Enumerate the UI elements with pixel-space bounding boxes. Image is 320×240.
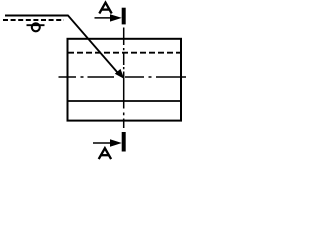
section arrow top <box>95 17 112 19</box>
part outline rectangle <box>68 39 182 121</box>
cutting plane thick bar bottom <box>122 132 126 152</box>
inner solid feature line <box>68 100 181 102</box>
seam weld symbol circle <box>32 23 40 31</box>
cutting plane thick bar top <box>122 8 126 25</box>
section arrow bottom <box>93 142 111 144</box>
weld reference line (solid) <box>5 15 69 17</box>
vertical cutting plane line A-A (chain) <box>123 28 125 129</box>
horizontal centerline (chain) <box>59 76 187 78</box>
section label A bottom <box>99 148 111 159</box>
hidden feature line (dashed) <box>68 52 181 54</box>
seam weld symbol chord line <box>27 24 45 26</box>
weld arrowhead <box>115 69 124 79</box>
weld identification line (dashed, other side) <box>3 19 64 21</box>
section label A top <box>99 3 111 14</box>
weld arrow leader (diagonal) <box>68 16 118 73</box>
